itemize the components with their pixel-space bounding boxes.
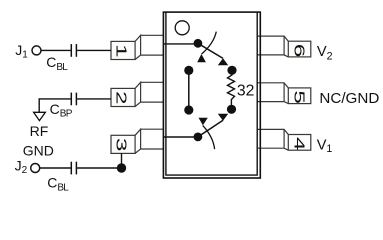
top switch arm to right throw [198,43,223,58]
bottom-left throw contact node [184,105,193,114]
pin 5 lead (right) [257,83,288,104]
bottom switch left arrowhead [199,118,208,126]
pin 6 foot [288,41,311,57]
wire capacitor to junction below pin 3 [77,167,121,169]
top-left throw contact node [184,66,193,75]
top switch left arrowhead [197,54,206,62]
svg-text:CBP: CBP [50,101,73,119]
connector J1 terminal circle [32,46,41,55]
capacitor C_BP plates [70,93,72,106]
pin 2 lead (left) [135,82,164,106]
svg-text:CBL: CBL [47,175,69,194]
junction dot at J2/pin3 [117,163,126,172]
wire left through-path (vertical) [188,70,190,110]
bottom switch arm to right throw [198,120,223,137]
bottom switch pole node [194,133,203,142]
wire J2 to capacitor C_BL (bottom) [40,167,71,169]
svg-text:6: 6 [291,44,307,58]
capacitor C_BL (bottom) plates [70,162,72,175]
svg-text:4: 4 [291,137,307,151]
svg-text:3: 3 [113,138,129,152]
pin 4 foot [288,135,311,151]
wire pin 2 to capacitor C_BP [77,98,111,100]
wire capacitor to pin 1 [77,49,111,51]
pin 1 indicator circle [175,21,189,35]
pin 3 lead (left) [135,129,164,153]
svg-text:32: 32 [237,83,255,100]
svg-text:CBL: CBL [46,54,68,73]
top switch motion arc [202,32,217,54]
connector J2 terminal circle [31,164,40,173]
svg-text:J2: J2 [15,158,28,177]
svg-text:2: 2 [113,91,129,105]
pin 1 foot [111,41,135,59]
wire junction up to pin 3 foot [121,153,123,168]
top-right throw contact node [227,66,236,75]
wire J1 to capacitor C_BL [41,49,70,51]
IC package body inner outline [166,13,257,176]
bottom switch motion arc [203,125,215,149]
svg-text:GND: GND [23,143,54,159]
IC package body outer outline [163,12,260,178]
svg-text:V2: V2 [317,44,333,62]
top switch pole node [194,39,203,48]
pin 2 foot [111,88,135,106]
svg-text:NC/GND: NC/GND [319,90,379,107]
pin 6 lead (right) [257,36,288,57]
svg-text:J1: J1 [15,42,28,60]
wire pin 3 to bottom switch pole [164,136,198,138]
bottom switch right arrowhead [218,114,228,121]
pin 3 foot [111,135,135,153]
pin 4 lead (right) [257,129,288,150]
RF ground symbol (open triangle) [34,112,46,120]
resistor 32 ohm (zigzag) [228,70,235,109]
svg-text:1: 1 [113,44,129,58]
wire capacitor C_BP to ground [39,99,70,112]
svg-text:RF: RF [30,123,49,139]
capacitor C_BL (top) plates [70,44,72,57]
svg-text:V1: V1 [317,137,333,155]
svg-text:5: 5 [291,90,307,104]
wire pin 1 to top switch pole [164,43,198,45]
pin 1 lead (left) [135,35,164,59]
top switch right arrowhead [218,58,228,65]
pin 5 foot [288,88,311,104]
bottom-right throw contact node [227,105,236,114]
